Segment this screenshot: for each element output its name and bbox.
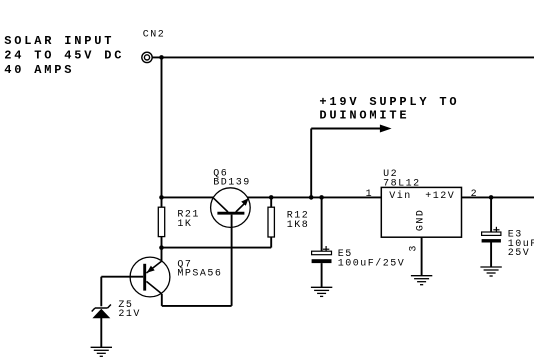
svg-text:+12V: +12V — [425, 191, 455, 202]
svg-text:3: 3 — [409, 244, 420, 252]
svg-text:CN2: CN2 — [143, 29, 166, 40]
regulator U2 78L12 — [381, 169, 461, 237]
transistor Q6 BD139 — [211, 168, 251, 227]
svg-text:25V: 25V — [508, 248, 531, 259]
resistor R21 — [158, 207, 200, 236]
connector CN2 — [142, 29, 166, 62]
wire Q6 emitter to U2 pin1 — [247, 196, 381, 198]
svg-text:Vin: Vin — [389, 190, 412, 202]
ground U2 pin3 — [411, 276, 432, 285]
wire R12 top stub — [270, 197, 272, 207]
wire U2 pin2 output rail — [462, 196, 534, 198]
wire to Q6 collector — [162, 196, 214, 198]
wire Q6 base vertical — [231, 215, 233, 306]
wire E3 top — [490, 197, 492, 232]
svg-text:21V: 21V — [118, 309, 141, 320]
wire E5 branch top — [321, 197, 323, 251]
wire Z5 bottom to ground — [100, 318, 102, 347]
wire Q7 base to Z5 — [101, 276, 143, 278]
node junction R12 top — [269, 195, 274, 200]
zener diode Z5 21V — [92, 300, 141, 320]
node junction left rail / Q6 collector branch — [159, 195, 164, 200]
ground E3 — [480, 267, 501, 276]
capacitor E5 100uF/25V — [312, 246, 406, 269]
svg-text:1: 1 — [366, 189, 374, 200]
svg-text:GND: GND — [415, 209, 426, 232]
node junction E5 branch — [319, 195, 324, 200]
node junction E3 branch — [489, 195, 494, 200]
wire Q7 collector to Q6 base horizontal — [162, 305, 232, 307]
svg-text:BD139: BD139 — [213, 178, 251, 189]
wire Z5 top — [100, 277, 102, 307]
wire U2 pin3 to ground — [421, 237, 423, 276]
note +19V SUPPLY TO DUINOMITE — [319, 95, 459, 123]
ground E5 — [311, 287, 332, 296]
svg-text:1K8: 1K8 — [287, 220, 310, 231]
svg-text:+19V SUPPLY TO: +19V SUPPLY TO — [319, 95, 459, 109]
svg-text:40 AMPS: 40 AMPS — [4, 63, 74, 77]
svg-text:100uF/25V: 100uF/25V — [338, 257, 406, 269]
wire E3 bottom to ground — [490, 243, 492, 268]
svg-text:SOLAR INPUT: SOLAR INPUT — [4, 34, 114, 48]
note SOLAR INPUT 24 TO 45V DC 40 AMPS — [4, 34, 124, 77]
wire R21 bottom node to R12 bottom — [162, 247, 272, 249]
wire +19V arrow horizontal — [311, 128, 380, 130]
wire R21 bottom to Q7 emitter — [161, 237, 163, 262]
wire Q7 collector down — [161, 294, 163, 306]
ground Z5 — [91, 347, 112, 356]
capacitor E3 10uF 25V — [482, 227, 534, 259]
svg-text:DUINOMITE: DUINOMITE — [319, 108, 409, 122]
svg-text:MPSA56: MPSA56 — [177, 269, 222, 280]
arrowhead +19V supply — [380, 125, 392, 133]
svg-text:24 TO 45V DC: 24 TO 45V DC — [4, 49, 124, 63]
wire vertical left rail down to R21 — [161, 57, 163, 207]
resistor R12 — [268, 207, 309, 237]
wire E5 bottom to ground — [321, 263, 323, 287]
wire top rail from CN2 to right edge — [152, 56, 534, 58]
node junction +19V branch — [309, 195, 314, 200]
wire R12 bottom stub — [270, 237, 272, 248]
wire +19V branch vertical — [310, 129, 312, 198]
transistor Q7 MPSA56 — [130, 257, 222, 297]
node junction CN2/vertical rail — [159, 55, 164, 60]
svg-text:1K: 1K — [177, 219, 192, 230]
node junction R21 bottom — [159, 245, 164, 250]
